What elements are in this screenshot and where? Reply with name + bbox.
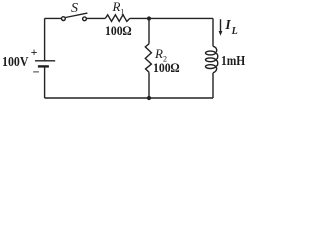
- current arrow IL head: [219, 31, 223, 36]
- label 100V source value: [2, 55, 28, 69]
- wire middle branch top (node to R2): [148, 18, 150, 43]
- label IL current: [225, 18, 236, 36]
- label 100 ohm for R1: [105, 24, 132, 37]
- node junction dot bottom (R2 bottom node): [147, 96, 151, 100]
- resistor R1 zigzag: [105, 15, 130, 22]
- label S (switch): [71, 2, 78, 16]
- label R2: [155, 47, 167, 64]
- switch S left contact circle: [62, 17, 66, 21]
- switch S right contact circle: [83, 17, 87, 21]
- wire right branch top (corner to inductor): [212, 18, 214, 46]
- wire bottom from left corner to right corner: [45, 97, 213, 99]
- label battery minus sign: [33, 66, 40, 79]
- switch S blade: [66, 13, 88, 17]
- wire left branch lower (battery - plate down to corner): [44, 66, 46, 98]
- label 100 ohm for R2: [153, 61, 180, 74]
- wire top-left from corner to switch: [45, 17, 62, 19]
- label 1mH inductor value: [221, 54, 245, 68]
- wire right branch bottom (inductor to corner): [212, 73, 214, 98]
- battery negative short plate: [38, 65, 49, 67]
- wire switch to R1: [87, 17, 106, 19]
- label R1: [113, 0, 125, 16]
- inductor L coil 1mH: [206, 46, 218, 73]
- wire middle branch bottom (R2 to node): [148, 72, 150, 98]
- wire left branch upper (corner down to battery + plate): [44, 18, 46, 60]
- battery positive long plate: [35, 60, 55, 62]
- node junction dot top (R2 top node): [147, 16, 151, 20]
- label battery plus sign: [31, 46, 38, 58]
- wire between resistor R1 and top-right corner: [130, 17, 213, 19]
- resistor R2 zigzag: [145, 44, 151, 73]
- current arrow IL shaft: [220, 19, 222, 32]
